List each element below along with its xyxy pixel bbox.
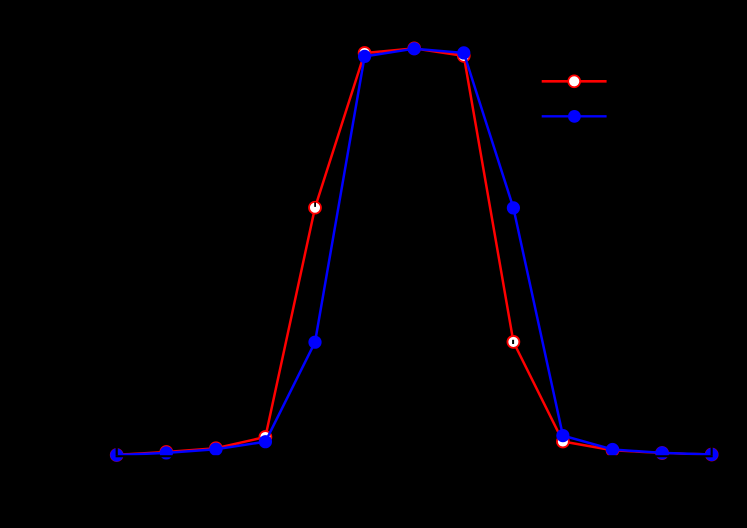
bottom spine bbox=[116, 455, 713, 457]
red series markers (open circles, white face) bbox=[111, 42, 718, 460]
legend: red entry bbox=[542, 75, 607, 87]
axes frame (black, drawn over data like matplotlib spines) bbox=[116, 44, 713, 457]
blue series line bbox=[117, 49, 712, 455]
legend: blue entry bbox=[542, 110, 607, 123]
blue series markers (filled circles) bbox=[110, 42, 718, 462]
left spine bbox=[116, 44, 118, 455]
right spine bbox=[711, 44, 713, 455]
red series line bbox=[117, 48, 712, 454]
black tick visible inside open marker at point 9 bbox=[512, 340, 514, 344]
black tick visible inside open marker at point 5 bbox=[314, 202, 316, 207]
